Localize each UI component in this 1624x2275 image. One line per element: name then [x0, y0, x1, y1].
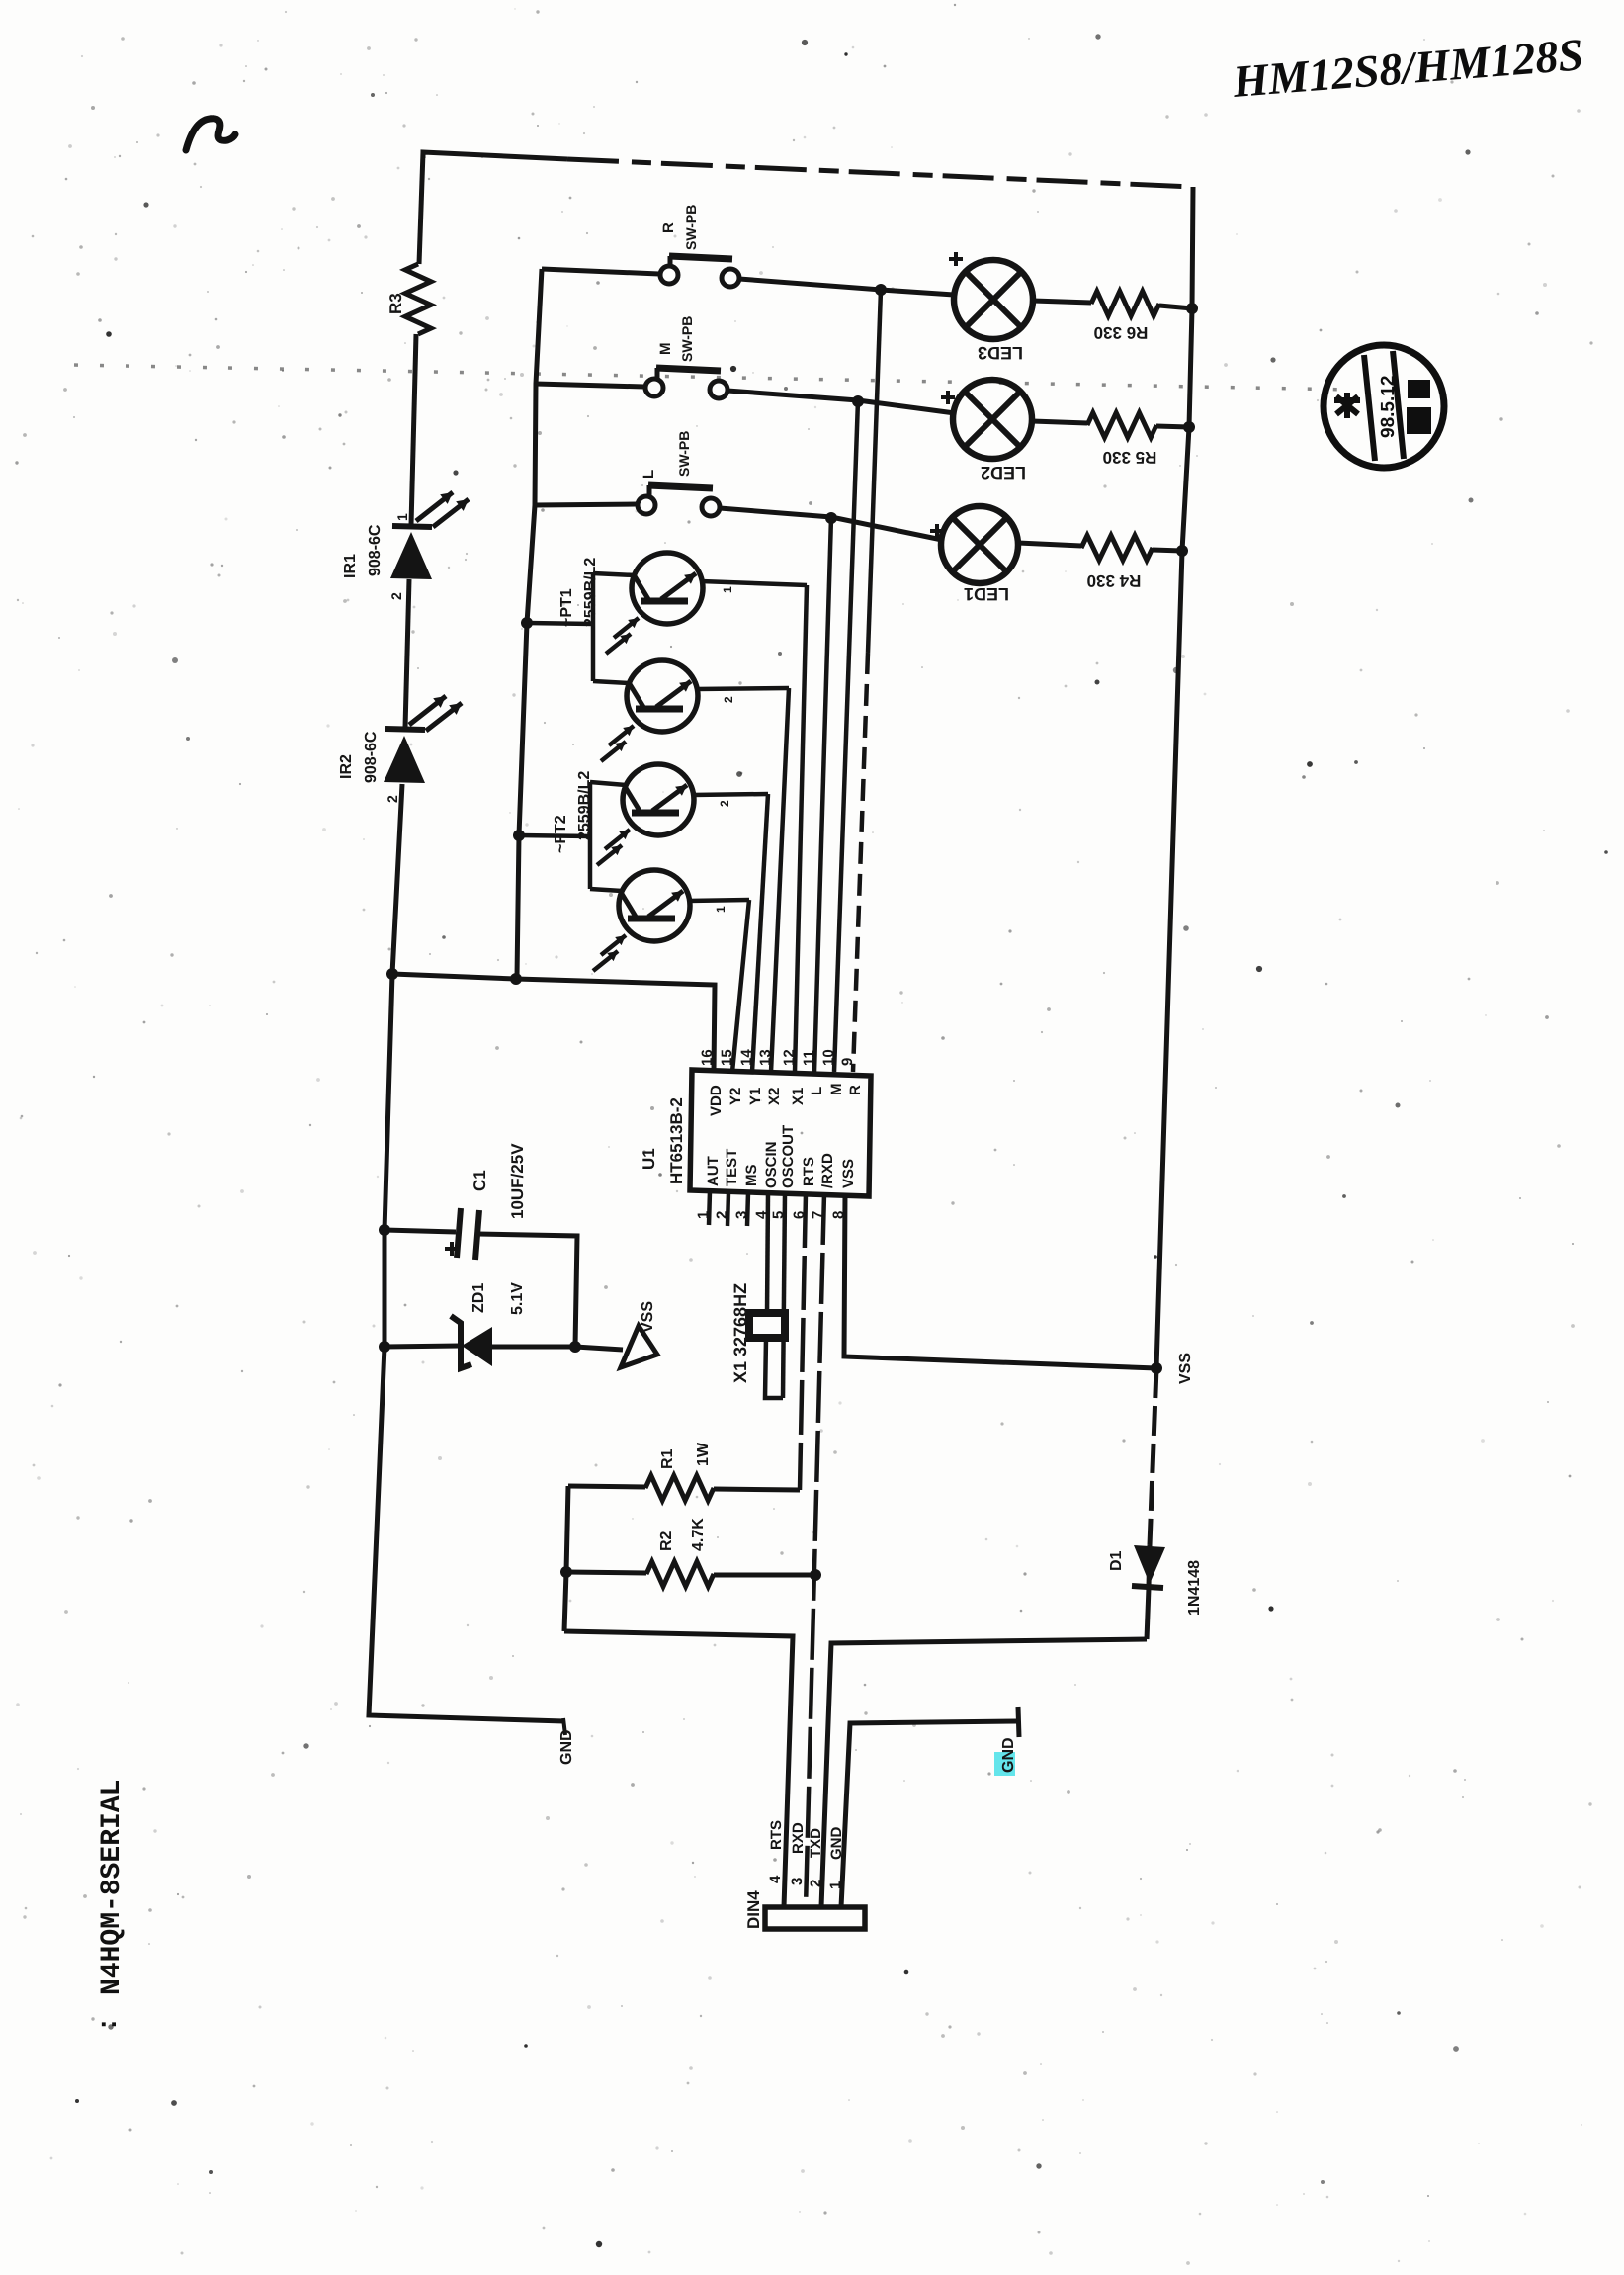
bus wire M (pin10) — [834, 400, 858, 1072]
IC U1 HT6513B-2 box — [690, 1070, 871, 1196]
svg-text:L: L — [641, 470, 657, 479]
wire RTS run to DIN pin4 — [564, 1631, 793, 1907]
svg-text:RTS: RTS — [801, 1157, 817, 1186]
svg-text:L: L — [809, 1087, 825, 1095]
wire GND from DIN pin1 — [841, 1721, 1018, 1907]
svg-text:RTS: RTS — [768, 1820, 785, 1850]
date stamp circle — [1324, 345, 1444, 468]
wire crystal bottom — [765, 1338, 783, 1398]
junction R2 / RXD line — [810, 1569, 821, 1581]
svg-text:RXD: RXD — [790, 1822, 807, 1854]
diode D1 1N4148 — [1149, 1545, 1150, 1586]
IC pin3 stub — [747, 1192, 748, 1226]
GND stub end tick — [563, 1718, 565, 1735]
wire PT1 stub — [527, 623, 593, 624]
wire TXD from D1 to DIN pin2 — [821, 1639, 1147, 1907]
VSS power symbol triangle — [621, 1326, 657, 1367]
crystal X1 — [749, 1313, 785, 1338]
svg-text:11: 11 — [801, 1050, 817, 1066]
svg-text:GND: GND — [828, 1827, 845, 1861]
LED3 plus — [949, 252, 963, 266]
svg-text:13: 13 — [757, 1049, 774, 1066]
lamp LED3 — [954, 260, 1033, 339]
svg-text:M: M — [657, 343, 674, 356]
svg-text:M: M — [828, 1084, 845, 1096]
lamp LED2 — [953, 380, 1032, 459]
junction switch rail / VDD wire — [510, 973, 522, 985]
IR LED IR2 — [385, 729, 425, 730]
svg-text:~PT1: ~PT1 — [558, 588, 575, 627]
svg-text:Y2: Y2 — [727, 1088, 744, 1105]
svg-text:/RXD: /RXD — [819, 1153, 836, 1188]
wire OSCIN to crystal — [767, 1193, 768, 1314]
svg-text:98.5.12: 98.5.12 — [1378, 376, 1399, 438]
svg-text:N4HQM-8SERIAL: N4HQM-8SERIAL — [97, 1780, 128, 1995]
svg-text:15: 15 — [719, 1049, 735, 1066]
junction left rail / ZD1 — [379, 1341, 390, 1353]
wire: M switch to LED2 — [858, 400, 955, 413]
capacitor C1 — [385, 1230, 456, 1232]
svg-text:GND: GND — [558, 1729, 575, 1765]
wire: left main rail — [419, 152, 423, 264]
junction R bus / LED3 wire — [875, 284, 887, 296]
dotted fold line across page — [74, 365, 1352, 390]
svg-text:OSCOUT: OSCOUT — [780, 1125, 797, 1188]
wire PT2 stub — [519, 835, 590, 836]
phototransistor PT2a — [590, 782, 626, 785]
svg-text:1W: 1W — [695, 1442, 712, 1466]
junction R1 / R2 — [560, 1566, 572, 1578]
svg-text:2: 2 — [722, 696, 735, 703]
svg-text:1: 1 — [714, 906, 727, 913]
resistor R5 — [1032, 421, 1087, 423]
svg-text:R3: R3 — [386, 293, 405, 314]
svg-text:R2: R2 — [658, 1531, 675, 1551]
phototransistor PT1b — [593, 681, 630, 683]
svg-text:U1: U1 — [640, 1148, 658, 1170]
svg-text:VDD: VDD — [708, 1085, 725, 1116]
IC pin2 stub — [727, 1192, 728, 1226]
svg-text:R1: R1 — [659, 1448, 676, 1469]
svg-text:2: 2 — [718, 800, 731, 807]
wire to VSS symbol — [575, 1347, 623, 1350]
resistor R3 — [405, 264, 431, 334]
svg-text:LED1: LED1 — [964, 584, 1009, 604]
svg-text:LED3: LED3 — [978, 343, 1023, 363]
junction ZD1 / C1 / VSS node — [569, 1341, 581, 1353]
svg-text:1: 1 — [394, 513, 410, 521]
svg-text:X1: X1 — [790, 1088, 807, 1105]
svg-text:1: 1 — [721, 586, 734, 593]
svg-text:AUT: AUT — [705, 1156, 722, 1186]
svg-text:ZD1: ZD1 — [470, 1283, 487, 1313]
svg-text:D1: D1 — [1108, 1550, 1125, 1571]
svg-text:4.7K: 4.7K — [690, 1518, 707, 1551]
svg-text:MS: MS — [743, 1165, 760, 1187]
svg-text:2: 2 — [388, 592, 404, 600]
DIN4 connector — [765, 1907, 865, 1929]
bus wire Y2 (pin15) — [732, 900, 749, 1072]
svg-text:10UF/25V: 10UF/25V — [508, 1143, 527, 1219]
switch R SW-PB — [542, 269, 659, 274]
switch L SW-PB — [535, 504, 637, 505]
svg-text:VSS: VSS — [1177, 1353, 1194, 1384]
LED1 plus — [930, 524, 944, 538]
resistor R6 — [1033, 301, 1091, 303]
resistor R1 — [568, 1486, 645, 1487]
svg-text:VSS: VSS — [640, 1301, 656, 1333]
svg-text:VSS: VSS — [840, 1159, 857, 1188]
svg-text:2: 2 — [808, 1880, 824, 1887]
junction PT2 / switch rail — [513, 830, 525, 841]
svg-text:2: 2 — [385, 795, 400, 803]
svg-text:~PT2: ~PT2 — [553, 815, 569, 853]
wire VSS pin8 to right rail — [844, 1193, 1156, 1368]
svg-text:R6 330: R6 330 — [1094, 323, 1149, 342]
phototransistor PT2b — [590, 889, 622, 891]
svg-text:2559B/L2: 2559B/L2 — [576, 771, 593, 840]
bus wire Y1 (pin14) — [752, 794, 768, 1072]
svg-text:GND: GND — [1000, 1737, 1017, 1773]
cyan highlight on GND — [994, 1752, 1015, 1776]
resistor R2 — [566, 1572, 646, 1573]
handwritten squiggle mark top-left — [186, 119, 235, 150]
svg-text:3: 3 — [789, 1878, 806, 1885]
bus wire L (pin11) — [814, 517, 831, 1072]
wire: top VDD rail (partly dashed) — [423, 152, 567, 159]
phototransistor PT1a — [593, 573, 635, 575]
svg-text:TEST: TEST — [724, 1149, 740, 1186]
svg-text:1: 1 — [827, 1881, 844, 1889]
svg-text:DIN4: DIN4 — [744, 1890, 763, 1929]
svg-text:14: 14 — [738, 1049, 755, 1066]
svg-text:4: 4 — [767, 1875, 784, 1883]
handwritten title HM1258/HM1288 — [1231, 29, 1585, 107]
bus wire X2 (pin13) — [771, 688, 789, 1072]
svg-text:908-6C: 908-6C — [363, 731, 380, 783]
svg-text:2559B/L2: 2559B/L2 — [582, 558, 599, 627]
junction R6 / VDD rail — [1186, 303, 1198, 314]
junction M bus / LED2 wire — [852, 395, 864, 407]
bus wire X1 (pin12) — [795, 585, 807, 1072]
wire RTS pin6 to R1 — [800, 1193, 806, 1490]
junction left rail / C1 — [379, 1224, 390, 1236]
svg-text:HT6513B-2: HT6513B-2 — [667, 1097, 686, 1184]
svg-text:R4 330: R4 330 — [1087, 571, 1142, 590]
svg-text:X2: X2 — [766, 1088, 783, 1105]
svg-text:16: 16 — [699, 1049, 716, 1066]
wire: VSS rail dashed to D1 — [1150, 1368, 1156, 1545]
svg-text:R: R — [660, 222, 677, 233]
svg-text:1N4148: 1N4148 — [1186, 1560, 1203, 1616]
wire: L switch to LED1 — [831, 517, 942, 540]
svg-text::: : — [91, 2020, 122, 2029]
LED2 plus — [941, 391, 955, 404]
svg-text:908-6C: 908-6C — [367, 524, 384, 576]
ground tick — [1018, 1707, 1019, 1737]
svg-text:SW-PB: SW-PB — [676, 431, 692, 477]
svg-text:R5 330: R5 330 — [1103, 448, 1157, 467]
stamp character blobs — [1334, 393, 1360, 418]
svg-text:5.1V: 5.1V — [509, 1282, 526, 1315]
wire RXD pin7 to DIN pin3 — [806, 1193, 824, 1907]
lamp LED1 — [941, 506, 1018, 583]
wire PT2 vertical — [588, 782, 593, 889]
zener ZD1 — [385, 1346, 460, 1347]
wire: switch common rail — [517, 269, 542, 977]
svg-text:IR2: IR2 — [338, 754, 355, 779]
junction left rail / VDD wire — [386, 968, 398, 980]
svg-text:C1: C1 — [470, 1170, 489, 1191]
wire: bottom rail to IC VDD — [392, 974, 715, 1071]
svg-text:IR1: IR1 — [342, 554, 359, 578]
svg-text:SW-PB: SW-PB — [679, 316, 695, 362]
wire PT1 vertical — [591, 573, 596, 681]
wire OSCOUT (pin5) — [783, 1193, 785, 1398]
IC pin1 stub — [709, 1191, 710, 1225]
IR LED IR1 — [392, 526, 432, 527]
junction R4 / VDD rail — [1176, 545, 1188, 557]
switch M SW-PB — [536, 384, 644, 387]
junction L bus / LED1 wire — [825, 512, 837, 524]
svg-text:X1 32768HZ: X1 32768HZ — [730, 1283, 750, 1383]
svg-text:12: 12 — [781, 1049, 798, 1066]
svg-text:LED2: LED2 — [981, 463, 1026, 482]
wire: right VDD/VSS rail — [1156, 187, 1193, 1368]
svg-text:TXD: TXD — [808, 1828, 824, 1858]
svg-text:OSCIN: OSCIN — [763, 1141, 780, 1188]
wire: R switch to LED3 — [881, 290, 954, 295]
svg-text:R: R — [847, 1085, 864, 1095]
svg-text:Y1: Y1 — [747, 1088, 764, 1105]
svg-text:10: 10 — [820, 1049, 837, 1066]
bus wire R (pin9) — [868, 290, 881, 653]
junction R5 / VDD rail — [1183, 421, 1195, 433]
wire R1/R2 junction vertical — [564, 1486, 568, 1631]
svg-text:9: 9 — [839, 1058, 856, 1066]
C1 plus — [445, 1242, 459, 1256]
svg-text:SW-PB: SW-PB — [683, 205, 699, 250]
junction PT1 / switch rail — [521, 617, 533, 629]
junction VSS rail / pin8 wire — [1151, 1362, 1162, 1374]
resistor R4 — [1018, 543, 1081, 546]
